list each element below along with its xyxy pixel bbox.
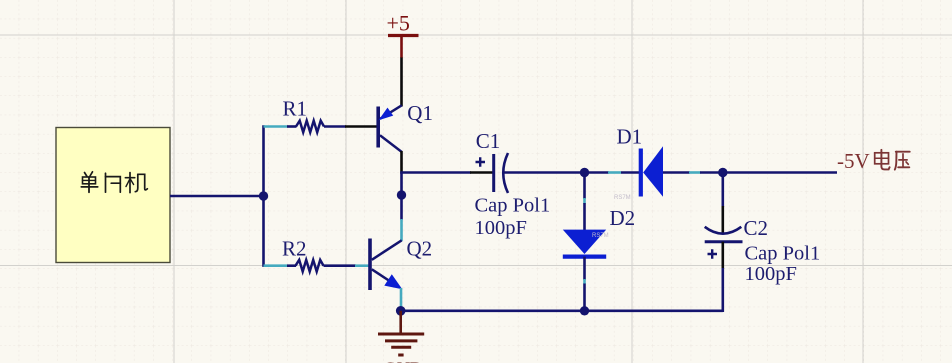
pin Q2 base (cyan) (355, 264, 369, 267)
svg-text:D1: D1 (617, 125, 643, 149)
diode D1 triangle (643, 146, 663, 196)
svg-text:100pF: 100pF (475, 217, 527, 239)
wire R2 to Q2 base (324, 264, 357, 267)
transistor Q1 collector (380, 135, 402, 152)
pin C1 left (black) (470, 171, 493, 174)
svg-text:Cap Pol1: Cap Pol1 (475, 194, 551, 216)
resistor R1 (296, 121, 324, 133)
pin Q2 collector (cyan) (400, 219, 403, 241)
node junction at base split (259, 191, 268, 200)
svg-text:+5: +5 (387, 11, 410, 36)
transistor Q2 emitter (372, 269, 398, 286)
wire node to -5V (723, 171, 837, 174)
capacitor C1 plate (492, 154, 495, 192)
resistor R2 pin (cyan) (264, 264, 288, 267)
transistor Q2 emitter arrow (384, 274, 402, 289)
microcontroller block 单片机 (56, 128, 170, 263)
svg-text:D2: D2 (610, 206, 636, 230)
net label 电 (875, 150, 890, 170)
diode D2 cathode bar (563, 255, 606, 259)
wire to D1 bar (621, 171, 640, 174)
transistor Q2 base bar (368, 239, 372, 291)
svg-text:C1: C1 (476, 129, 501, 153)
resistor R2 (296, 260, 324, 272)
svg-text:RS7M: RS7M (592, 233, 609, 239)
pin D2 bottom (cyan) (583, 279, 586, 284)
resistor R1 pin (cyan) (264, 125, 288, 128)
label 机 (125, 173, 147, 193)
capacitor C2 plus sign (708, 249, 718, 258)
svg-text:-5V: -5V (837, 149, 870, 173)
wire node to D1 (585, 171, 610, 174)
transistor Q1 emitter (380, 105, 402, 119)
ground bar 4 (398, 354, 403, 357)
wire R1 to Q1 base (324, 125, 346, 128)
wire to R2 (287, 264, 296, 267)
wire +5 to Q1 emitter (black) (400, 58, 403, 107)
ground bar 2 (385, 339, 417, 342)
node C1/D2 (580, 168, 589, 177)
ground stem (399, 311, 402, 334)
pin Q2 emitter (cyan) (400, 288, 403, 307)
node emitter/ground (396, 306, 406, 316)
wire to node C2 (700, 171, 723, 174)
label 单 (81, 172, 97, 193)
wire D2 to bottom rail (583, 284, 586, 311)
pin D1 left (cyan) (608, 171, 621, 174)
transistor Q1 emitter arrow (379, 108, 394, 121)
wire to R1 (287, 125, 297, 128)
svg-text:GND: GND (383, 359, 423, 363)
wire node to D2 (583, 173, 586, 200)
wire D2 cathode down (583, 257, 586, 280)
wire from box to node (170, 195, 264, 198)
svg-text:100pF: 100pF (745, 263, 797, 285)
net label 压 (895, 152, 910, 170)
capacitor C2 plate (705, 240, 743, 243)
wire C1 right to node (504, 171, 586, 174)
capacitor C1 curved plate (503, 153, 508, 193)
svg-text:C2: C2 (744, 216, 769, 240)
node collector tie (397, 190, 406, 199)
power +5 bar (388, 34, 419, 37)
pin Q1 base (black) (345, 125, 377, 128)
wire C2 top (721, 173, 724, 208)
capacitor C1 plus sign (476, 157, 486, 166)
svg-text:RS7M: RS7M (614, 195, 631, 201)
wire main rail left (400, 171, 471, 174)
svg-text:R2: R2 (282, 237, 307, 261)
svg-text:R1: R1 (283, 97, 308, 121)
pin C2 top (black) (721, 206, 724, 233)
wire vertical base split (262, 125, 265, 267)
wire C2 bottom to rail (721, 268, 724, 312)
label 片 (106, 173, 121, 192)
wire bottom rail (401, 309, 723, 312)
pin Q1 collector (black) (400, 151, 403, 173)
diode D1 cathode bar (639, 149, 643, 197)
ground bar 3 (391, 346, 411, 349)
pin D1 right (cyan) (689, 171, 701, 174)
svg-text:Q1: Q1 (407, 101, 433, 125)
capacitor C2 curved plate (705, 227, 742, 234)
pin C2 bottom (black) (721, 242, 724, 269)
power +5 stub (400, 36, 403, 59)
pin D2 top (cyan) (583, 198, 586, 204)
svg-text:Q2: Q2 (407, 237, 433, 261)
diode D2 triangle (563, 230, 606, 254)
node C2 top (718, 168, 727, 177)
ground bar 1 (378, 333, 424, 336)
transistor Q2 collector (372, 240, 402, 259)
wire to D2 anode (583, 203, 586, 231)
transistor Q1 base bar (376, 107, 380, 148)
svg-text:Cap Pol1: Cap Pol1 (745, 243, 821, 265)
wire D1 to right (663, 171, 690, 174)
wire node down to Q2 collector (400, 173, 403, 221)
node D2 bottom (580, 306, 589, 315)
